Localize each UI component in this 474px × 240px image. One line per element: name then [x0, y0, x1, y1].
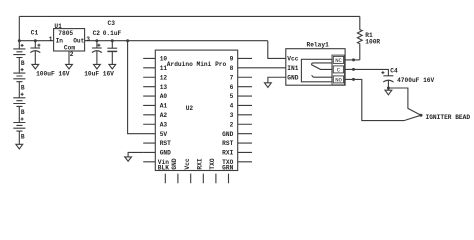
ground under C2 [94, 64, 101, 69]
svg-text:RXI: RXI [197, 158, 204, 169]
svg-text:10: 10 [160, 56, 168, 63]
svg-text:BLK: BLK [158, 164, 169, 171]
ground under Arduino GND [125, 157, 132, 161]
svg-text:TXO: TXO [209, 158, 216, 169]
battery stack cell 1 [18, 41, 20, 49]
ground under U1 Com [66, 64, 73, 69]
capacitor C1 [34, 41, 36, 48]
ground under C4 [385, 90, 392, 95]
svg-text:4700uF 16V: 4700uF 16V [397, 77, 434, 84]
svg-text:U2: U2 [186, 105, 194, 112]
relay coil inner box [301, 59, 332, 82]
relay NO contact box [333, 76, 343, 83]
svg-text:Arduino Mini Pro: Arduino Mini Pro [167, 61, 227, 68]
regulator U1 7805 [54, 29, 85, 51]
pin stubs right side U2 [238, 58, 252, 161]
relay armature NC-C [312, 63, 332, 70]
ground under C3 [109, 64, 116, 69]
svg-text:A3: A3 [160, 121, 168, 128]
svg-text:GND: GND [287, 74, 298, 81]
svg-text:B: B [21, 134, 25, 141]
svg-text:RST: RST [222, 140, 233, 147]
svg-text:B: B [21, 60, 25, 67]
wire relay C to C4 [345, 69, 389, 75]
IC U2 Arduino Mini Pro box [155, 50, 237, 170]
svg-text:A1: A1 [160, 103, 168, 110]
svg-text:6: 6 [230, 84, 234, 91]
svg-text:A0: A0 [160, 93, 168, 100]
svg-text:7: 7 [230, 74, 234, 81]
svg-text:0.1uF: 0.1uF [103, 30, 122, 37]
svg-text:IN1: IN1 [287, 65, 298, 72]
relay C contact box [333, 66, 343, 73]
svg-text:B: B [21, 109, 25, 116]
svg-text:5: 5 [230, 93, 234, 100]
pin stubs bottom U2 [165, 174, 228, 184]
wire Vcc drop to relay [268, 41, 286, 59]
ground under relay GND [265, 83, 272, 88]
svg-text:12: 12 [160, 74, 168, 81]
svg-text:GRN: GRN [222, 164, 233, 171]
wire relay NC to R1 [345, 59, 360, 61]
wire 5V drop to Arduino 5V pin [128, 41, 144, 134]
capacitor C4 [381, 71, 384, 74]
svg-text:8: 8 [230, 65, 234, 72]
svg-text:GND: GND [160, 150, 171, 157]
svg-text:A2: A2 [160, 112, 168, 119]
svg-text:RST: RST [160, 140, 171, 147]
svg-text:4: 4 [230, 103, 234, 110]
wire left vertical from top rail to battery [18, 16, 20, 40]
svg-text:1: 1 [49, 36, 53, 43]
battery stack cell 2 [18, 58, 20, 74]
svg-text:2: 2 [230, 121, 234, 128]
ground under C1 [32, 64, 39, 69]
svg-text:13: 13 [160, 84, 168, 91]
svg-text:RXI: RXI [222, 150, 233, 157]
battery stack cell 3 [18, 82, 20, 98]
svg-text:Vcc: Vcc [184, 158, 191, 169]
relay box Relay1 [286, 49, 345, 85]
svg-text:3: 3 [230, 112, 234, 119]
battery stack cell 4 [18, 106, 20, 122]
wire relay GND to ground [268, 77, 286, 83]
svg-text:C4: C4 [390, 67, 398, 74]
capacitor C3 [111, 41, 113, 49]
svg-text:GND: GND [171, 158, 178, 169]
svg-text:Relay1: Relay1 [307, 41, 330, 48]
svg-text:100R: 100R [365, 38, 380, 45]
svg-text:C: C [337, 66, 341, 73]
svg-text:B: B [21, 84, 25, 91]
svg-text:GND: GND [222, 131, 233, 138]
wire 5V rail left of U1 [19, 40, 53, 42]
wire U1 Com pin to ground [68, 51, 70, 64]
wire 5V rail right of U1 [85, 40, 268, 42]
svg-text:11: 11 [160, 65, 168, 72]
wire pin8 to relay IN1 [252, 67, 286, 69]
svg-text:IGNITER BEAD: IGNITER BEAD [426, 114, 471, 121]
svg-text:Vcc: Vcc [287, 56, 298, 63]
svg-text:3: 3 [86, 36, 90, 43]
wire relay NO to igniter [345, 79, 422, 120]
wire battery bottom to ground [18, 131, 20, 144]
svg-text:9: 9 [230, 56, 234, 63]
wire C4 bottom to igniter [388, 88, 421, 115]
svg-text:7805: 7805 [58, 30, 73, 37]
svg-text:2: 2 [70, 51, 74, 58]
svg-text:C2: C2 [93, 30, 101, 37]
svg-text:5V: 5V [160, 131, 168, 138]
svg-text:In: In [56, 38, 64, 45]
relay NO contact [312, 75, 332, 77]
resistor R1 [357, 16, 362, 60]
svg-text:NO: NO [335, 76, 342, 83]
pin stubs left side U2 [143, 58, 155, 161]
wire top rail [19, 15, 360, 17]
relay contact column [332, 55, 345, 85]
svg-text:C3: C3 [108, 20, 116, 27]
relay NC contact box [333, 56, 343, 63]
capacitor C2 [96, 41, 98, 48]
wire Arduino GND to ground [128, 152, 143, 156]
svg-text:100uF 16V: 100uF 16V [36, 71, 70, 78]
ground under battery [16, 144, 23, 149]
wire C4 bottom ground stub [387, 88, 389, 90]
svg-text:NC: NC [335, 57, 342, 64]
svg-text:10uF 16V: 10uF 16V [84, 71, 114, 78]
svg-text:C1: C1 [31, 29, 39, 36]
